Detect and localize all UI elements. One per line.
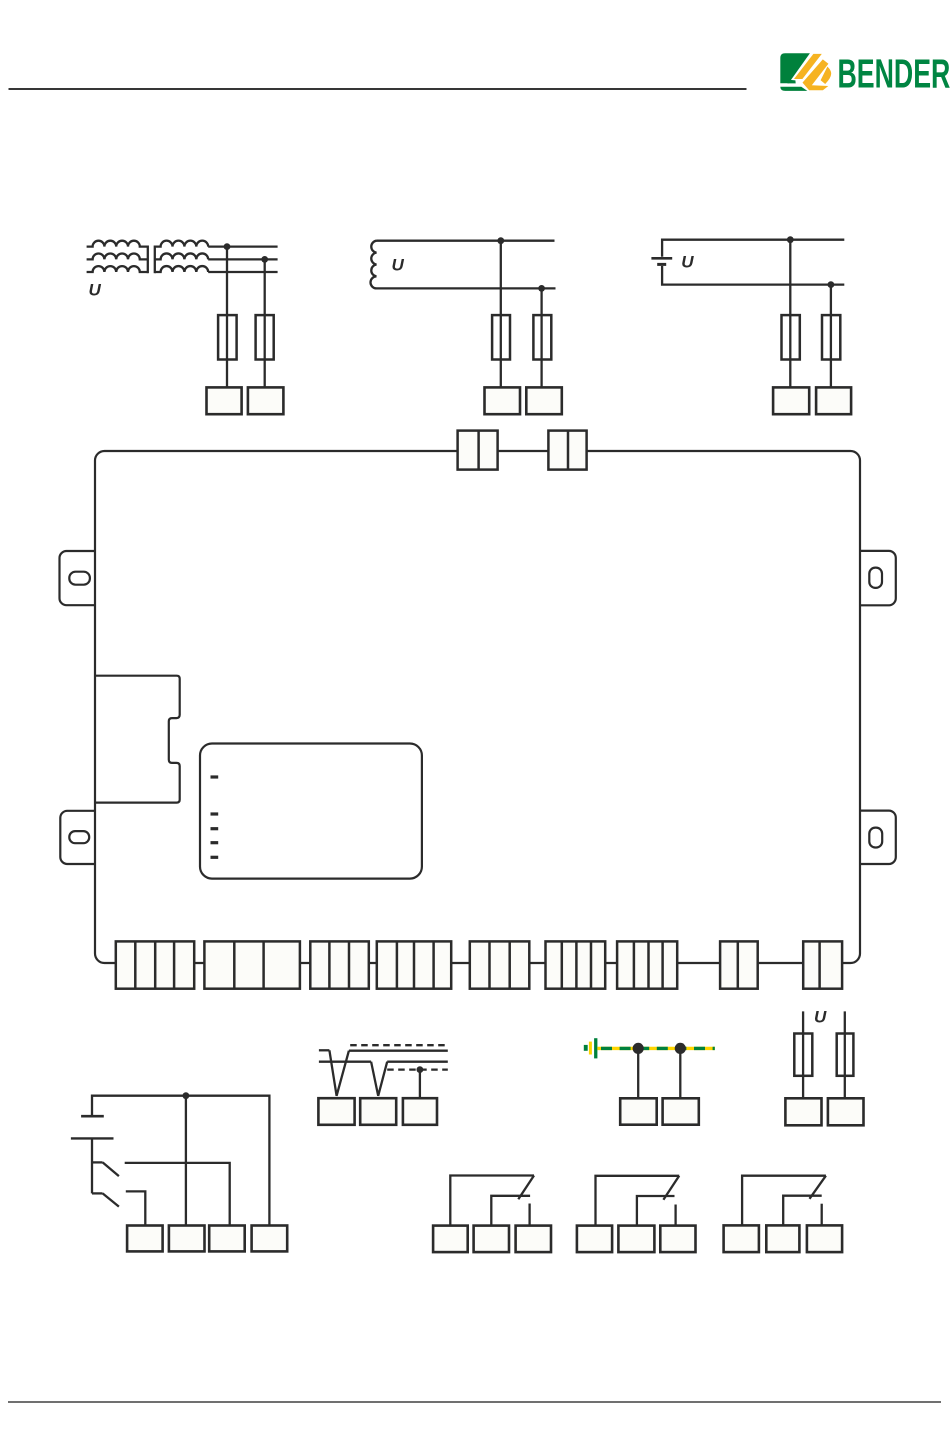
K2 NO stub	[674, 1205, 676, 1226]
transformer T1 primary bar	[147, 246, 149, 274]
device left protrusion	[95, 676, 180, 803]
K3 NO stub	[821, 1204, 823, 1226]
header rule	[9, 88, 747, 90]
terminal box k2-t2	[618, 1226, 654, 1253]
block X3 dividers	[329, 941, 349, 988]
block X7 dividers	[634, 941, 663, 988]
display dash 2	[211, 812, 219, 815]
wire c3 top	[662, 240, 844, 257]
terminal box k1-t1	[433, 1226, 468, 1253]
node dot L2	[261, 256, 268, 263]
battery G1 long plate	[651, 257, 672, 260]
wire c3 drop2	[830, 285, 832, 388]
bottom block X8	[720, 941, 758, 988]
wire b1 top rail	[92, 1096, 269, 1226]
wire c3 bottom	[662, 266, 844, 285]
cable line 2 left	[319, 1061, 371, 1063]
fuse F7	[794, 1034, 812, 1076]
K3 NC wire	[783, 1196, 822, 1226]
mounting tab right top	[860, 551, 896, 605]
shielded cable dashed line bottom	[387, 1068, 448, 1070]
cable shield drop	[419, 1070, 421, 1099]
logo green wedge	[787, 80, 795, 84]
wire c2 drop2	[540, 288, 542, 387]
K1 common wire	[450, 1176, 534, 1226]
svg-text:U: U	[392, 255, 405, 274]
svg-text:U: U	[814, 1007, 827, 1026]
K3 common wire	[742, 1176, 826, 1226]
wire b1 battery down	[91, 1140, 93, 1194]
transformer T1 secondary bar	[154, 246, 156, 274]
display outline	[200, 744, 422, 879]
mounting tab left top	[60, 551, 96, 605]
transformer T1 primary winding (3-phase)	[87, 241, 148, 247]
logo yellow tail curve	[821, 67, 832, 84]
bottom block X1	[116, 941, 194, 988]
display dash 5	[211, 856, 219, 859]
PE electrode green bar	[594, 1038, 597, 1058]
logo yellow bolt A	[794, 54, 822, 79]
display dash 1	[211, 775, 219, 778]
block X8 divider	[737, 941, 740, 988]
battery G2 plate top	[81, 1115, 104, 1118]
node dot shield	[417, 1066, 424, 1073]
wire L3	[208, 271, 277, 273]
terminal box k2-t3	[660, 1226, 695, 1253]
mounting tab left bottom	[60, 811, 95, 864]
switch S1 fixed contact wire	[125, 1163, 230, 1226]
node dot c3 b	[828, 281, 835, 288]
K3 blade	[810, 1176, 826, 1199]
device outline	[95, 451, 860, 963]
K1 NC wire	[491, 1196, 530, 1226]
node dot c2 a	[497, 237, 504, 244]
battery G1 short plate	[657, 263, 666, 266]
switch S1 stub	[92, 1161, 103, 1163]
terminal box c3-t2	[816, 387, 851, 414]
fuse F5	[782, 315, 800, 359]
display dash 3	[211, 827, 219, 830]
bottom block X9	[803, 941, 842, 988]
top connector J1	[458, 431, 498, 470]
tab hole right top	[869, 568, 882, 588]
logo green bottom strip	[780, 87, 807, 91]
switch S2 blade	[103, 1193, 119, 1206]
relay contact K3	[742, 1176, 826, 1226]
node dot c2 b	[538, 285, 545, 292]
top connector J2	[548, 431, 586, 470]
wire L1	[208, 245, 277, 247]
terminal box pe-t2	[663, 1098, 699, 1124]
Bender logo icon	[780, 53, 831, 91]
wire c2 bottom	[377, 287, 556, 289]
logo yellow bolt B with foot	[803, 59, 829, 90]
wire c3 drop1	[789, 240, 791, 388]
terminal box pe-t1	[620, 1098, 657, 1124]
top connector J1 divider	[477, 431, 480, 470]
footer rule	[8, 1401, 941, 1403]
wire L2 drop to fuse F2	[264, 259, 266, 387]
PE drop 1	[637, 1048, 639, 1098]
tab hole left bottom	[69, 831, 89, 843]
PE electrode green tick	[584, 1045, 588, 1051]
terminal box k2-t1	[577, 1226, 612, 1253]
terminal box k3-t2	[766, 1225, 799, 1252]
terminal box c2-t2	[526, 387, 562, 414]
terminal box b2-t2	[360, 1098, 396, 1125]
battery G2 plate bottom	[71, 1137, 114, 1139]
relay contact K1	[450, 1176, 534, 1226]
fuse F1	[218, 315, 237, 359]
K2 blade	[663, 1176, 679, 1200]
tab hole right bottom	[869, 828, 882, 848]
cable line 2 right	[387, 1061, 448, 1063]
terminal box br-t1	[785, 1098, 821, 1125]
K2 common wire	[596, 1176, 680, 1226]
K2 NC wire	[637, 1196, 675, 1226]
node dot b1	[183, 1092, 190, 1099]
terminal box b1-t3	[209, 1226, 245, 1252]
svg-text:U: U	[89, 281, 102, 300]
wire c2 drop1	[500, 241, 502, 388]
block X1 dividers	[135, 941, 174, 988]
relay contact K2	[596, 1176, 680, 1226]
fuse F3	[492, 315, 510, 359]
cable stub left	[319, 1049, 330, 1051]
bottom block X2	[204, 941, 300, 988]
terminal box br-t2	[828, 1098, 864, 1125]
bottom block X5	[470, 941, 530, 988]
top connector J2 divider	[567, 431, 570, 470]
wire br right	[844, 1011, 846, 1098]
terminal box k1-t3	[516, 1226, 551, 1253]
bottom block X3	[310, 941, 369, 988]
terminal box b2-t3	[403, 1098, 437, 1125]
switch S1 blade	[103, 1162, 119, 1176]
block X2 dividers	[234, 941, 263, 988]
PE conductor yellow base	[597, 1047, 714, 1050]
block X9 divider	[818, 941, 821, 988]
terminal box c1-t2	[248, 387, 284, 414]
coil W1 (AC source)	[371, 241, 377, 289]
PE conductor green dashes	[597, 1047, 714, 1050]
cable V-drop 2	[371, 1062, 387, 1096]
PE node dot 1	[633, 1043, 644, 1054]
K1 blade	[518, 1176, 534, 1200]
terminal box c2-t1	[485, 387, 521, 414]
svg-text:BENDER: BENDER	[838, 52, 950, 97]
mounting tab right bottom	[860, 811, 896, 864]
bottom block X7	[617, 941, 677, 988]
wire c2 top	[377, 240, 555, 242]
terminal box k3-t1	[724, 1225, 759, 1252]
terminal box b1-t1	[127, 1226, 163, 1252]
shielded cable dashed line top	[350, 1044, 448, 1046]
block X4 dividers	[397, 941, 434, 988]
wire b1 drop mid	[185, 1096, 187, 1226]
PE drop 2	[679, 1048, 681, 1098]
display dash 4	[211, 841, 219, 844]
fuse F8	[837, 1034, 854, 1076]
wire br left	[802, 1011, 804, 1098]
terminal box b1-t2	[169, 1226, 205, 1252]
node dot L1	[224, 243, 231, 250]
node dot c3 a	[787, 236, 794, 243]
switch S2 fixed contact wire	[126, 1191, 146, 1225]
bottom block X6	[546, 941, 606, 988]
terminal box b2-t1	[318, 1098, 354, 1125]
transformer T1 secondary winding	[155, 241, 208, 247]
fuse F4	[533, 315, 551, 359]
block X6 dividers	[562, 941, 591, 988]
terminal box b1-t4	[252, 1226, 288, 1252]
fuse F6	[822, 315, 840, 359]
terminal box c3-t1	[773, 387, 809, 414]
cable V-drop 1	[329, 1050, 349, 1096]
K1 NO stub	[528, 1204, 530, 1226]
wire L2	[208, 258, 277, 260]
PE node dot 2	[675, 1043, 686, 1054]
svg-text:U: U	[681, 252, 694, 271]
bottom block X4	[377, 941, 451, 988]
switch S2 stub	[92, 1192, 103, 1194]
tab hole left top	[69, 572, 90, 585]
block X5 dividers	[490, 941, 510, 988]
logo green main panel	[780, 53, 810, 83]
wire L1 drop to fuse F1	[226, 247, 228, 388]
fuse F2	[256, 315, 274, 359]
terminal box k1-t2	[474, 1226, 509, 1253]
shielded cable solid line top	[349, 1050, 448, 1052]
PE electrode yellow bar	[589, 1042, 592, 1055]
terminal box c1-t1	[207, 387, 242, 414]
terminal box k3-t3	[807, 1225, 842, 1252]
